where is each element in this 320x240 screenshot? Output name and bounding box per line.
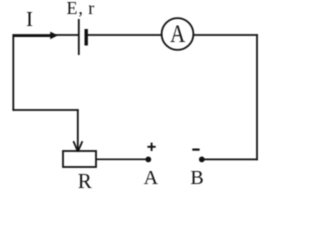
- wire left vertical: [12, 34, 14, 111]
- node B terminal dot: [199, 157, 205, 163]
- wire left-bottom horizontal: [13, 109, 79, 111]
- wire top-left horizontal: [13, 34, 79, 36]
- svg-text:I: I: [26, 7, 33, 31]
- node A terminal dot: [145, 157, 151, 163]
- wire resistor to A: [96, 158, 148, 160]
- svg-text:B: B: [190, 167, 203, 189]
- battery E,r long plate: [78, 19, 80, 55]
- plus sign at A: [147, 143, 155, 151]
- wire bottom-right to B: [202, 158, 258, 160]
- current arrow I: [14, 32, 58, 40]
- svg-text:R: R: [78, 169, 92, 190]
- wire slider vertical with arrowhead onto R: [73, 109, 82, 152]
- minus sign at B: [192, 149, 199, 151]
- wire ammeter to right corner: [193, 34, 258, 36]
- wire right vertical: [256, 34, 258, 160]
- battery E,r short plate: [84, 29, 87, 46]
- svg-text:A: A: [170, 20, 185, 48]
- svg-text:E, r: E, r: [67, 0, 96, 18]
- resistor R body: [63, 151, 96, 167]
- ammeter U1 circle: [162, 18, 194, 50]
- wire battery to ammeter: [86, 34, 161, 36]
- svg-text:A: A: [144, 167, 159, 189]
